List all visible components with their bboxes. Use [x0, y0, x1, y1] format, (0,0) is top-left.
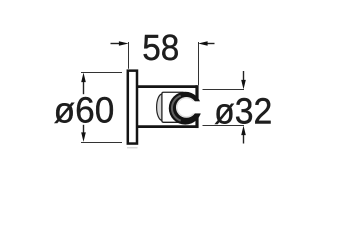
svg-text:58: 58 — [142, 28, 179, 69]
svg-text:ø32: ø32 — [214, 91, 272, 131]
svg-text:ø60: ø60 — [54, 90, 115, 131]
